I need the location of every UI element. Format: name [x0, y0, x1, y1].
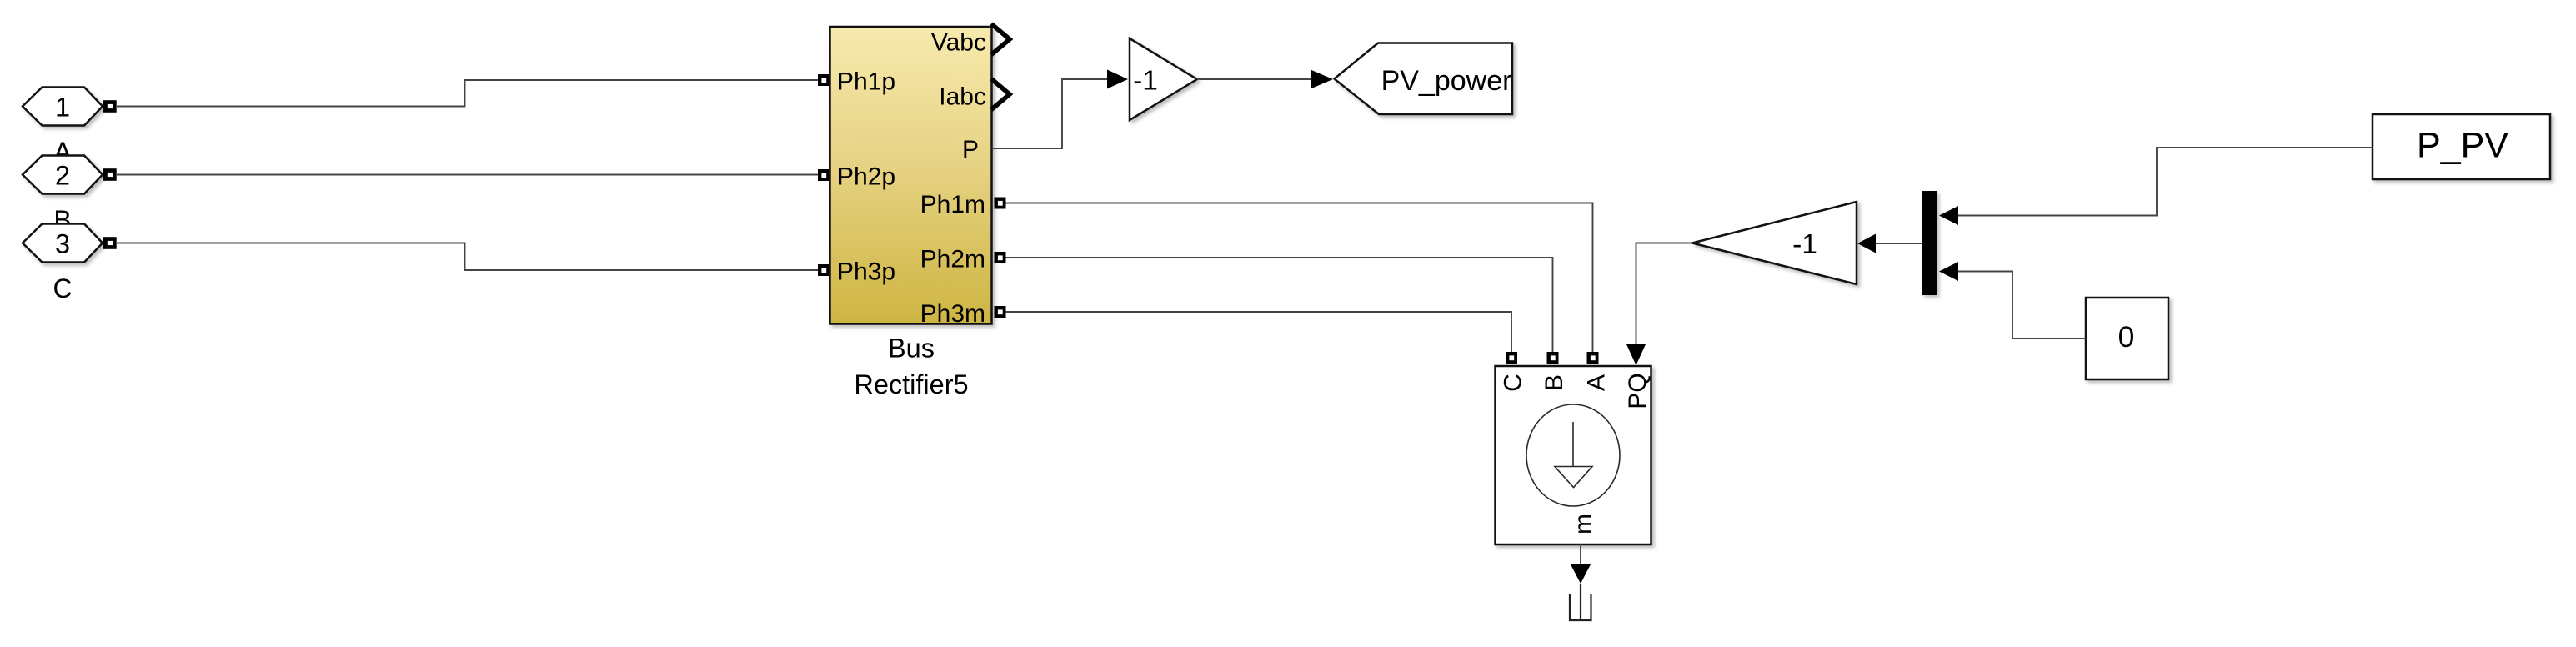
- port 1 pin square: [103, 100, 117, 113]
- load pin C square: [1506, 352, 1517, 364]
- load source circle: [1526, 404, 1620, 506]
- pin Ph1m square: [995, 198, 1006, 209]
- svg-text:m: m: [1570, 514, 1597, 534]
- gain U1 (-1): [1130, 38, 1197, 120]
- load source arrow line: [1572, 422, 1574, 466]
- terminator cup: [1570, 584, 1591, 621]
- svg-text:-1: -1: [1133, 65, 1158, 96]
- port 3 (hexagon connection port): [23, 224, 103, 263]
- gain U2 (-1) left-pointing: [1692, 202, 1857, 284]
- svg-text:2: 2: [55, 161, 70, 191]
- pin Ph2m square: [995, 252, 1006, 263]
- port 3 pin square: [103, 237, 117, 249]
- subsystem Bus Rectifier5: [830, 27, 992, 324]
- port 1 (hexagon connection port): [23, 88, 103, 126]
- wire m to terminator: [1580, 544, 1581, 564]
- svg-text:PV_power: PV_power: [1381, 65, 1512, 97]
- wire gain2 to load PQ: [1636, 243, 1693, 345]
- pin Iabc chevron: [991, 79, 1010, 110]
- svg-text:Ph1p: Ph1p: [837, 68, 895, 96]
- svg-text:Vabc: Vabc: [931, 28, 986, 56]
- svg-text:-1: -1: [1792, 229, 1817, 260]
- svg-text:Rectifier5: Rectifier5: [854, 369, 968, 399]
- svg-text:C: C: [53, 273, 72, 303]
- wire port1 to Ph1p: [117, 80, 818, 107]
- svg-text:P_PV: P_PV: [2417, 125, 2508, 165]
- svg-text:PQ: PQ: [1624, 373, 1651, 409]
- wire gain1 to PV_power: [1197, 78, 1311, 80]
- port 2 (hexagon connection port): [23, 156, 103, 194]
- arrowhead into gain2: [1857, 234, 1876, 253]
- arrowhead into load PQ: [1626, 344, 1646, 365]
- constant 0: [2086, 298, 2168, 379]
- three-phase dynamic load U3: [1496, 366, 1651, 544]
- wire P_PV to mux input 1: [1958, 148, 2373, 216]
- pin Ph3p square: [818, 264, 829, 276]
- wire Ph2m to load port B: [1006, 258, 1553, 352]
- arrowhead into terminator: [1571, 564, 1591, 584]
- wire port3 to Ph3p: [117, 243, 818, 271]
- svg-text:Ph3p: Ph3p: [837, 258, 895, 286]
- port 2 pin square: [103, 168, 117, 181]
- svg-text:Bus: Bus: [888, 334, 935, 364]
- arrowhead into mux input 2: [1939, 262, 1958, 281]
- arrowhead into PV_power: [1311, 70, 1333, 89]
- pin Ph1p square: [818, 74, 829, 86]
- svg-text:Iabc: Iabc: [939, 83, 986, 111]
- wire constant 0 to mux input 2: [1958, 272, 2086, 339]
- svg-text:0: 0: [2118, 320, 2135, 354]
- load pin B square: [1547, 352, 1559, 364]
- wire port2 to Ph2p: [117, 174, 818, 176]
- goto tag PV_power: [1335, 43, 1513, 115]
- svg-text:Ph3m: Ph3m: [920, 300, 985, 328]
- wire mux to gain2: [1876, 243, 1922, 244]
- svg-text:A: A: [1582, 374, 1610, 391]
- svg-text:C: C: [1499, 374, 1526, 392]
- load source arrow triangle: [1555, 467, 1592, 488]
- wire Ph3m to load port C: [1006, 312, 1512, 352]
- mux M1: [1922, 191, 1937, 295]
- pin Vabc chevron: [991, 24, 1010, 55]
- pin Ph3m square: [995, 306, 1006, 318]
- block name Bus Rectifier5: [854, 334, 968, 400]
- pin Ph2p square: [818, 169, 829, 181]
- svg-text:P: P: [962, 136, 979, 163]
- svg-text:Ph1m: Ph1m: [920, 191, 985, 218]
- wire P to gain1: [992, 79, 1108, 148]
- load pin A square: [1587, 352, 1599, 364]
- svg-text:Ph2p: Ph2p: [837, 163, 895, 191]
- arrowhead into gain1: [1107, 70, 1128, 89]
- svg-text:B: B: [1541, 374, 1568, 391]
- svg-text:1: 1: [55, 93, 70, 123]
- from tag P_PV: [2373, 114, 2550, 179]
- svg-text:3: 3: [55, 229, 70, 259]
- arrowhead into mux input 1: [1939, 206, 1958, 225]
- wire Ph1m to load port A: [1006, 203, 1593, 353]
- svg-text:Ph2m: Ph2m: [920, 246, 985, 273]
